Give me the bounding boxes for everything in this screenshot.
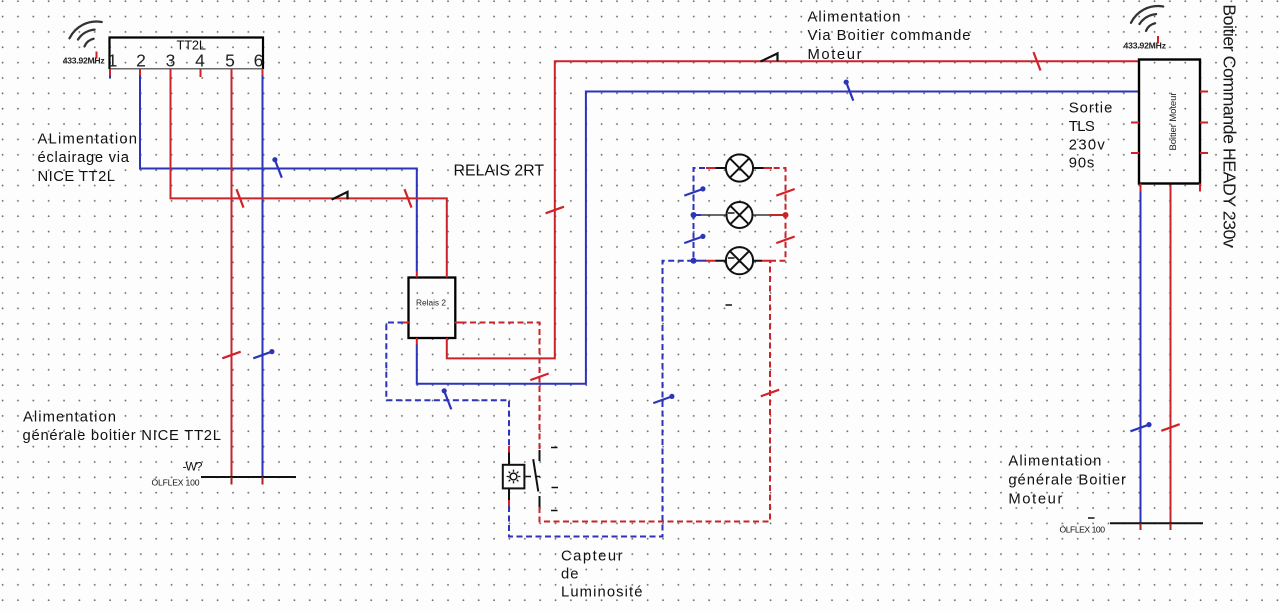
contact pin dash marks [551,448,558,511]
cable right conductor ends [1141,523,1171,530]
svg-text:3: 3 [166,51,176,71]
antenna terminal right [1157,36,1159,44]
svg-text:-W?: -W? [183,459,203,473]
sensor actuating link dashes [526,476,541,478]
node label: Alimentation Via Boitier commande Moteur [808,10,971,64]
lamp E3 [716,247,763,274]
terminal 4 stub [200,76,202,78]
svg-text:TLS: TLS [1069,119,1095,135]
wire marker blue dots (vertical wires) [269,186,1151,427]
sensor bottom pin [508,488,510,500]
svg-text:RELAIS 2RT: RELAIS 2RT [454,163,545,180]
svg-text:Boitier Moteur: Boitier Moteur [1168,93,1179,151]
svg-text:230v: 230v [1069,138,1106,154]
wire red: TT2L terminal 5 down to supply cable [231,76,233,477]
lamp E3 left feed blue [694,260,707,262]
svg-text:Capteur: Capteur [561,549,623,565]
svg-text:5: 5 [225,51,235,71]
svg-text:éclairage via: éclairage via [38,150,130,166]
svg-text:Via Boitier commande: Via Boitier commande [808,28,971,44]
svg-text:de: de [561,567,579,583]
lamp E2 left feed [694,214,702,216]
svg-text:433.92MHz: 433.92MHz [1124,40,1167,50]
wire marker blue on N horizontal [275,82,853,409]
lamp E1 [716,154,764,181]
lamp E2 [727,202,753,228]
TT2L terminals (red ticks) [110,69,263,76]
sensor top terminal [508,446,510,453]
lamp E1 terminals [706,167,772,169]
cable left conductor ends [232,477,263,485]
wire dashed red: switch contact bottom to lamp group right rail [540,261,771,522]
wire blue: Boitier Moteur bottom to supply cable [1140,192,1142,523]
node label: ALimentation eclairage via NICE TT2L [38,131,138,185]
wire N blue: TT2L terminal 2 down and right to relay coil A1 [140,76,417,272]
lamp E2 pins [700,214,770,216]
svg-text:NICE TT2L: NICE TT2L [38,169,116,185]
svg-text:2: 2 [136,51,146,71]
svg-text:Boitier Commande HEADY 230v: Boitier Commande HEADY 230v [1219,4,1239,248]
svg-text:Moteur: Moteur [1008,492,1062,508]
junction dot lamp left rail E2 [691,212,697,218]
wire red: Boitier Moteur bottom to supply cable [1170,184,1172,523]
TT2L pin numbers 1-6 [108,51,264,71]
receiver TT2L box [110,38,264,70]
svg-text:4: 4 [195,51,205,71]
relay K1 Relais 2 [409,278,456,339]
node label: Alimentation generale Boitier Moteur [1008,454,1126,508]
svg-text:ALimentation: ALimentation [38,131,138,147]
dash mark above OLFLEX right [1088,517,1095,519]
svg-text:6: 6 [254,51,264,71]
junction dot lamp left rail E3 [691,258,697,264]
wire dashed red: relay right to switch contact [461,323,540,451]
relay terminals [403,271,461,345]
sensor bottom terminal [508,500,510,506]
svg-text:ÖLFLEX 100: ÖLFLEX 100 [1060,524,1106,534]
motor box Boitier Moteur [1139,60,1200,184]
wire blue: relay output to Boitier Moteur (bottom left loop) [417,92,1139,384]
cable termination right [1110,522,1203,524]
pin dash mark below lamp E3 [726,304,733,306]
wire marker blue dots (horizontal wires) [272,80,849,394]
svg-text:90s: 90s [1069,156,1095,172]
svg-text:Sortie: Sortie [1069,101,1113,117]
wire L red: TT2L terminal 3 down and right to relay coil A2 [171,76,447,272]
pin dash mark lamp E3 [728,257,735,259]
svg-text:Relais 2: Relais 2 [416,298,446,308]
wire blue: TT2L terminal 6 down to supply cable [262,76,264,477]
svg-text:Alimentation: Alimentation [808,10,901,26]
wire dashed blue: sensor bottom to lamp group left rail [509,168,706,537]
wire red: relay output up and right to Boitier Moteur top [447,61,1139,358]
lamp E3 terminals [705,260,770,262]
wire dashed red: lamp right rail vertical [770,168,786,261]
cable W? termination left [201,476,296,478]
node label: Alimentation generale boitier NICE TT2L [23,410,222,445]
sensor top pin [508,453,510,466]
node label: Capteur de Luminosite [561,549,643,601]
wire marker blue on vertical wires [253,189,1149,431]
motor box terminals bottom [1141,184,1201,192]
terminal 1 stub [109,76,111,79]
motor box terminals right [1200,92,1208,154]
svg-text:1: 1 [108,51,118,71]
wire dashed blue: relay to luminosity sensor top [386,323,509,447]
antenna terminal [96,52,98,59]
svg-text:433.92MHz: 433.92MHz [63,55,105,65]
switch S1 on red wire from TT2L [332,192,348,200]
svg-text:générale boitier NICE TT2L: générale boitier NICE TT2L [23,428,222,444]
wire marker red slashes (vertical wires) [222,189,1179,431]
svg-text:générale Boitier: générale Boitier [1008,473,1126,489]
switch S2 on red wire to Boitier Moteur [761,53,778,61]
antenna Boitier 433.92MHz [1131,6,1163,31]
svg-text:Luminosité: Luminosité [561,585,643,601]
antenna TT2L 433.92MHz [70,22,102,47]
pin dash mark lamp E2 [728,212,735,214]
svg-text:ÖLFLEX 100: ÖLFLEX 100 [152,477,200,487]
junction dot lamp right rail E2 [783,212,789,218]
svg-text:Alimentation: Alimentation [23,410,116,426]
motor box terminals left [1131,123,1139,154]
sensor contact switch [533,450,539,507]
lamp E2 right feed [770,214,786,216]
svg-text:Alimentation: Alimentation [1008,454,1101,470]
luminosity sensor B1 box [503,465,525,489]
wire marker red slashes (horizontal wires) [237,52,1041,208]
node label: Sortie TLS 230v 90s [1069,101,1113,172]
